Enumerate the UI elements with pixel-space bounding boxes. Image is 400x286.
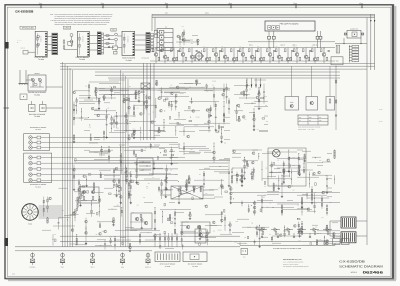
bias trap box B3: [326, 97, 335, 111]
wire drops to 8-pin plug board: [154, 233, 177, 247]
meter resistor network box: [336, 45, 339, 53]
head shield bracket symbol: [19, 70, 34, 85]
svg-text:B+24V: B+24V: [379, 109, 383, 111]
svg-text:0.01: 0.01: [136, 108, 139, 110]
caption fuse PC board TA-2630 right: [122, 56, 136, 61]
mic jack J3: [90, 253, 95, 269]
svg-text:LINE: LINE: [121, 267, 124, 269]
svg-text:1.5K: 1.5K: [277, 159, 280, 161]
svg-text:10K: 10K: [153, 112, 155, 114]
svg-text:2SC458: 2SC458: [212, 81, 216, 83]
notes text block: [50, 13, 113, 26]
svg-text:1.5K: 1.5K: [212, 84, 215, 86]
left vertical wiring bus: [46, 62, 73, 247]
svg-text:33K: 33K: [201, 237, 203, 239]
title drawing number: [351, 270, 383, 274]
svg-text:TO PRE AMP: TO PRE AMP: [141, 57, 149, 59]
legend note lines: [298, 127, 320, 131]
power transformer T2: [341, 232, 356, 243]
svg-text:10K: 10K: [269, 203, 271, 205]
svg-text:2.2K: 2.2K: [260, 107, 263, 109]
svg-text:VR1: VR1: [226, 96, 229, 98]
bridge rectifier D1: [141, 83, 150, 89]
right rail junction wires: [335, 38, 367, 44]
svg-text:2SC458: 2SC458: [158, 90, 162, 92]
svg-text:REC: REC: [309, 117, 312, 119]
svg-text:2SC458: 2SC458: [196, 117, 200, 119]
bias oscillator box B1: [285, 97, 299, 111]
svg-text:TA-2645: TA-2645: [165, 266, 171, 268]
svg-text:10K: 10K: [170, 85, 172, 87]
bottom edge shadow: [6, 278, 394, 280]
operation switch board box lower: [24, 153, 52, 182]
svg-text:33K: 33K: [288, 163, 290, 165]
svg-text:PB: PB: [319, 117, 321, 119]
svg-text:2.2K: 2.2K: [54, 234, 57, 236]
connector plug pair P2: [316, 36, 322, 48]
connector strip right of mic block: [135, 30, 158, 59]
regulator transistor block: [195, 229, 206, 243]
svg-text:REEL MOTOR: REEL MOTOR: [332, 237, 341, 239]
top signal rails to pre-amp: [152, 13, 375, 31]
svg-text:GX-635D/DB: GX-635D/DB: [15, 9, 34, 13]
svg-text:VR1: VR1: [190, 149, 193, 151]
svg-text:12-14, 2-CHOME, HIGASHI-KOJIYA: 12-14, 2-CHOME, HIGASHI-KOJIYA: [283, 262, 303, 264]
svg-text:R - - -: R - - -: [17, 42, 21, 44]
rotary function selector: [22, 204, 38, 226]
svg-text:R115: R115: [228, 160, 231, 162]
svg-text:P-8: P-8: [243, 256, 245, 258]
power supply filter capacitors: [261, 233, 311, 238]
svg-text:TA-2636: TA-2636: [35, 187, 41, 189]
svg-text:22K: 22K: [172, 218, 174, 220]
svg-text:10K: 10K: [269, 234, 271, 236]
fuse PC board TA-2630 (PHONO/LINE) input block: [20, 26, 58, 56]
svg-text:8PIN PLUG PC BOARD: 8PIN PLUG PC BOARD: [160, 263, 175, 265]
svg-text:OFF: OFF: [319, 120, 322, 122]
meter terminal box: [331, 57, 343, 65]
svg-text:4.7K: 4.7K: [116, 118, 119, 120]
svg-text:R115: R115: [236, 221, 239, 223]
MIC-BUM PC board: [183, 252, 207, 268]
svg-text:ARROW MARKS INDICATE DIRECTION: ARROW MARKS INDICATE DIRECTION OF SIGNAL…: [55, 24, 107, 26]
caption fuse PC board TA-2630 left: [34, 56, 48, 61]
input legend tiny text: [17, 40, 23, 45]
svg-text:10K: 10K: [148, 114, 150, 116]
equalizer switch block: [137, 158, 153, 175]
record amplifier circuitry: [73, 143, 233, 204]
line jack J4: [120, 253, 125, 269]
playback equalizer amplifier circuitry: [73, 80, 230, 143]
DIN jack components: [29, 101, 47, 112]
svg-text:VR1: VR1: [178, 36, 181, 38]
svg-text:2SC458: 2SC458: [218, 230, 222, 232]
svg-text:22K: 22K: [62, 210, 64, 212]
capstan motor M1: [273, 149, 281, 157]
svg-text:22K: 22K: [265, 168, 267, 170]
svg-text:2SC1000BL: 2SC1000BL: [127, 36, 129, 43]
line output circuitry: [234, 80, 268, 132]
power transformer T1: [341, 217, 356, 228]
voltage labels right margin: [379, 109, 383, 123]
mic jack J2: [60, 253, 65, 269]
svg-text:2.2K: 2.2K: [143, 197, 146, 199]
system control PC board bracket: [240, 243, 335, 250]
svg-text:R115: R115: [133, 128, 136, 130]
svg-text:TA-2646: TA-2646: [192, 266, 198, 268]
left border tick marks: [4, 42, 9, 246]
main supply rail bottom: [15, 236, 340, 251]
svg-text:ON: ON: [309, 120, 311, 122]
bias oscillator box B2: [306, 97, 318, 111]
motor drive rails: [232, 193, 340, 203]
svg-text:33K: 33K: [129, 86, 131, 88]
svg-text:OPERATION PC BOARD: OPERATION PC BOARD: [30, 184, 46, 186]
manufacturer address block: [283, 258, 309, 268]
svg-text:33K: 33K: [320, 233, 322, 235]
svg-text:0.01: 0.01: [264, 186, 267, 188]
caption fuse PC board TA-2630 middle: [75, 56, 89, 61]
flip-flop logic block: [79, 187, 99, 203]
main horizontal supply rails: [60, 63, 375, 78]
power supply diode row: [258, 228, 332, 235]
svg-text:2.2K: 2.2K: [206, 90, 209, 92]
svg-text:L ———: L ———: [17, 40, 23, 42]
svg-text:2. VOLTAGES AND SIGNAL LEVELS: 2. VOLTAGES AND SIGNAL LEVELS MAY VARY W…: [50, 20, 110, 22]
caption operation PC board TA-2636 bottom: [30, 184, 46, 188]
svg-text:R115: R115: [279, 172, 282, 174]
svg-text:10K: 10K: [199, 174, 201, 176]
transformer connection wires: [330, 221, 367, 236]
svg-text:VR1: VR1: [266, 207, 269, 209]
svg-text:33K: 33K: [185, 89, 187, 91]
svg-text:1.5K: 1.5K: [182, 26, 185, 28]
svg-text:MARK INDICATES CHASSIS GROUND: MARK INDICATES CHASSIS GROUND: [298, 127, 320, 129]
timer control block: [131, 213, 152, 229]
svg-text:PHONES: PHONES: [30, 267, 36, 269]
svg-text:2SC458LG: 2SC458LG: [82, 36, 84, 42]
selector fan-out wires: [39, 206, 63, 218]
right edge dark band: [392, 5, 394, 280]
specification legend table: [298, 115, 328, 125]
svg-text:MIC IN: MIC IN: [21, 47, 25, 49]
svg-text:MIC-BUM PC BOARD: MIC-BUM PC BOARD: [188, 263, 202, 265]
svg-text:TIMER: TIMER: [28, 224, 32, 226]
svg-text:2SC458: 2SC458: [194, 124, 198, 126]
right vertical rails with arrows: [367, 14, 375, 245]
mid signal rail pair upper: [95, 88, 230, 90]
svg-text:S1: S1: [299, 120, 301, 122]
headphone jack J1: [30, 253, 36, 269]
REC/PB head switching board box: [28, 72, 46, 91]
meter driver circuitry: [231, 150, 335, 216]
phono input jack and label: [21, 47, 35, 54]
fuse PC board TA-2630 (MIC) input block: [111, 28, 135, 55]
svg-text:GX-635D/DB: GX-635D/DB: [339, 259, 365, 263]
pre-amp PC board block: [265, 21, 321, 36]
svg-text:22K: 22K: [322, 217, 324, 219]
svg-text:0.01: 0.01: [325, 175, 328, 177]
svg-text:33K: 33K: [246, 243, 248, 245]
channel section labels row: [249, 44, 318, 47]
svg-text:(PHONO/LINE): (PHONO/LINE): [22, 27, 34, 30]
svg-text:33K: 33K: [96, 234, 98, 236]
svg-text:22K: 22K: [95, 108, 97, 110]
reel motor boxes: [332, 237, 349, 245]
center vertical trunk lines: [144, 63, 155, 140]
svg-text:(LINE): (LINE): [64, 27, 69, 30]
REC/PB relay switch box: [157, 25, 173, 50]
erase head terminal box: [20, 94, 27, 100]
svg-text:REMOTE: REMOTE: [145, 267, 151, 269]
svg-text:SCHEMATIC DIAGRAM: SCHEMATIC DIAGRAM: [339, 264, 383, 268]
right margin component chain: [335, 66, 337, 130]
motor control circuit box: [268, 148, 306, 186]
svg-text:VR1: VR1: [251, 223, 254, 225]
svg-text:0.01: 0.01: [293, 157, 296, 159]
svg-text:TA-2636: TA-2636: [35, 129, 41, 131]
control logic wiring area: [42, 184, 120, 246]
caption operation PC board top: [30, 127, 46, 131]
svg-text:B+12V: B+12V: [379, 121, 383, 123]
oscillator feed drops: [292, 66, 330, 96]
svg-text:MIC L: MIC L: [61, 267, 65, 269]
dolby NR switch box: [344, 27, 364, 38]
svg-text:NO.E-1: NO.E-1: [351, 271, 357, 274]
svg-text:THE LEADER IN TAPE RECORDER QU: THE LEADER IN TAPE RECORDER QUALITY: [283, 266, 309, 268]
svg-text:R115: R115: [204, 205, 207, 207]
remote jack J5: [145, 253, 151, 269]
bias oscillator and control circuitry: [95, 203, 232, 252]
head amplifier stage band: [150, 46, 335, 64]
muting circuitry: [232, 217, 340, 248]
caption REC/PB SW PC board: [28, 91, 47, 96]
output level ladder boxes: [349, 45, 359, 63]
vertical wire bundle center: [121, 70, 129, 247]
operation board fan-out wires: [49, 138, 178, 181]
8-pin plug PC board: [155, 252, 180, 268]
caption DIN jack PC board: [29, 113, 46, 118]
svg-text:SIGNAL PATH: → PB ⇒ REC: SIGNAL PATH: → PB ⇒ REC: [298, 129, 314, 131]
svg-text:PRE AMP PC BOARD: PRE AMP PC BOARD: [280, 22, 299, 25]
interstage coupling parts between line and mic blocks: [104, 35, 114, 48]
svg-text:MEASURED WITH VTVM DURING PLAY: MEASURED WITH VTVM DURING PLAYBACK OPERA…: [55, 18, 112, 20]
svg-text:0.047: 0.047: [292, 165, 295, 167]
svg-text:22K: 22K: [244, 237, 246, 239]
svg-text:0.047: 0.047: [109, 237, 112, 239]
svg-text:MIC R: MIC R: [91, 267, 95, 269]
svg-text:(REC): (REC): [205, 13, 209, 15]
operation switch board box upper: [24, 134, 50, 151]
fuse PC board TA-2630 (LINE) input block: [63, 26, 103, 57]
svg-text:0.01: 0.01: [257, 129, 260, 131]
svg-text:OHTA-KU, TOKYO, JAPAN: OHTA-KU, TOKYO, JAPAN: [283, 264, 298, 266]
DIN connector box bottom: [241, 249, 248, 259]
pre-amp input rail: [248, 41, 335, 43]
svg-text:OPERATION PC BOARD: OPERATION PC BOARD: [30, 127, 46, 129]
counter logic block: [160, 186, 214, 199]
svg-text:2SC458: 2SC458: [251, 169, 255, 171]
svg-text:2.2K: 2.2K: [85, 85, 88, 87]
connector arrows on vertical drops: [246, 78, 261, 88]
top border tick marks with grid numbers: [39, 3, 363, 9]
svg-text:2SC458: 2SC458: [180, 93, 184, 95]
svg-text:1.5K: 1.5K: [165, 174, 168, 176]
svg-text:0.01: 0.01: [100, 157, 103, 159]
record level circuitry upper: [176, 26, 199, 45]
svg-text:062466: 062466: [363, 270, 384, 274]
bias bridge diamond: [195, 52, 204, 61]
svg-text:33K: 33K: [238, 107, 240, 109]
solenoid driver block: [182, 222, 210, 233]
svg-text:0.047: 0.047: [234, 242, 237, 244]
svg-text:2SC458LG: 2SC458LG: [40, 36, 42, 42]
connector plug pair P1: [268, 36, 276, 48]
svg-text:10K: 10K: [157, 132, 159, 134]
mid signal rail pair lower: [74, 161, 230, 164]
svg-text:ALL CAPACITANCE VALUES ARE IN: ALL CAPACITANCE VALUES ARE IN MICROFARAD…: [55, 16, 114, 18]
